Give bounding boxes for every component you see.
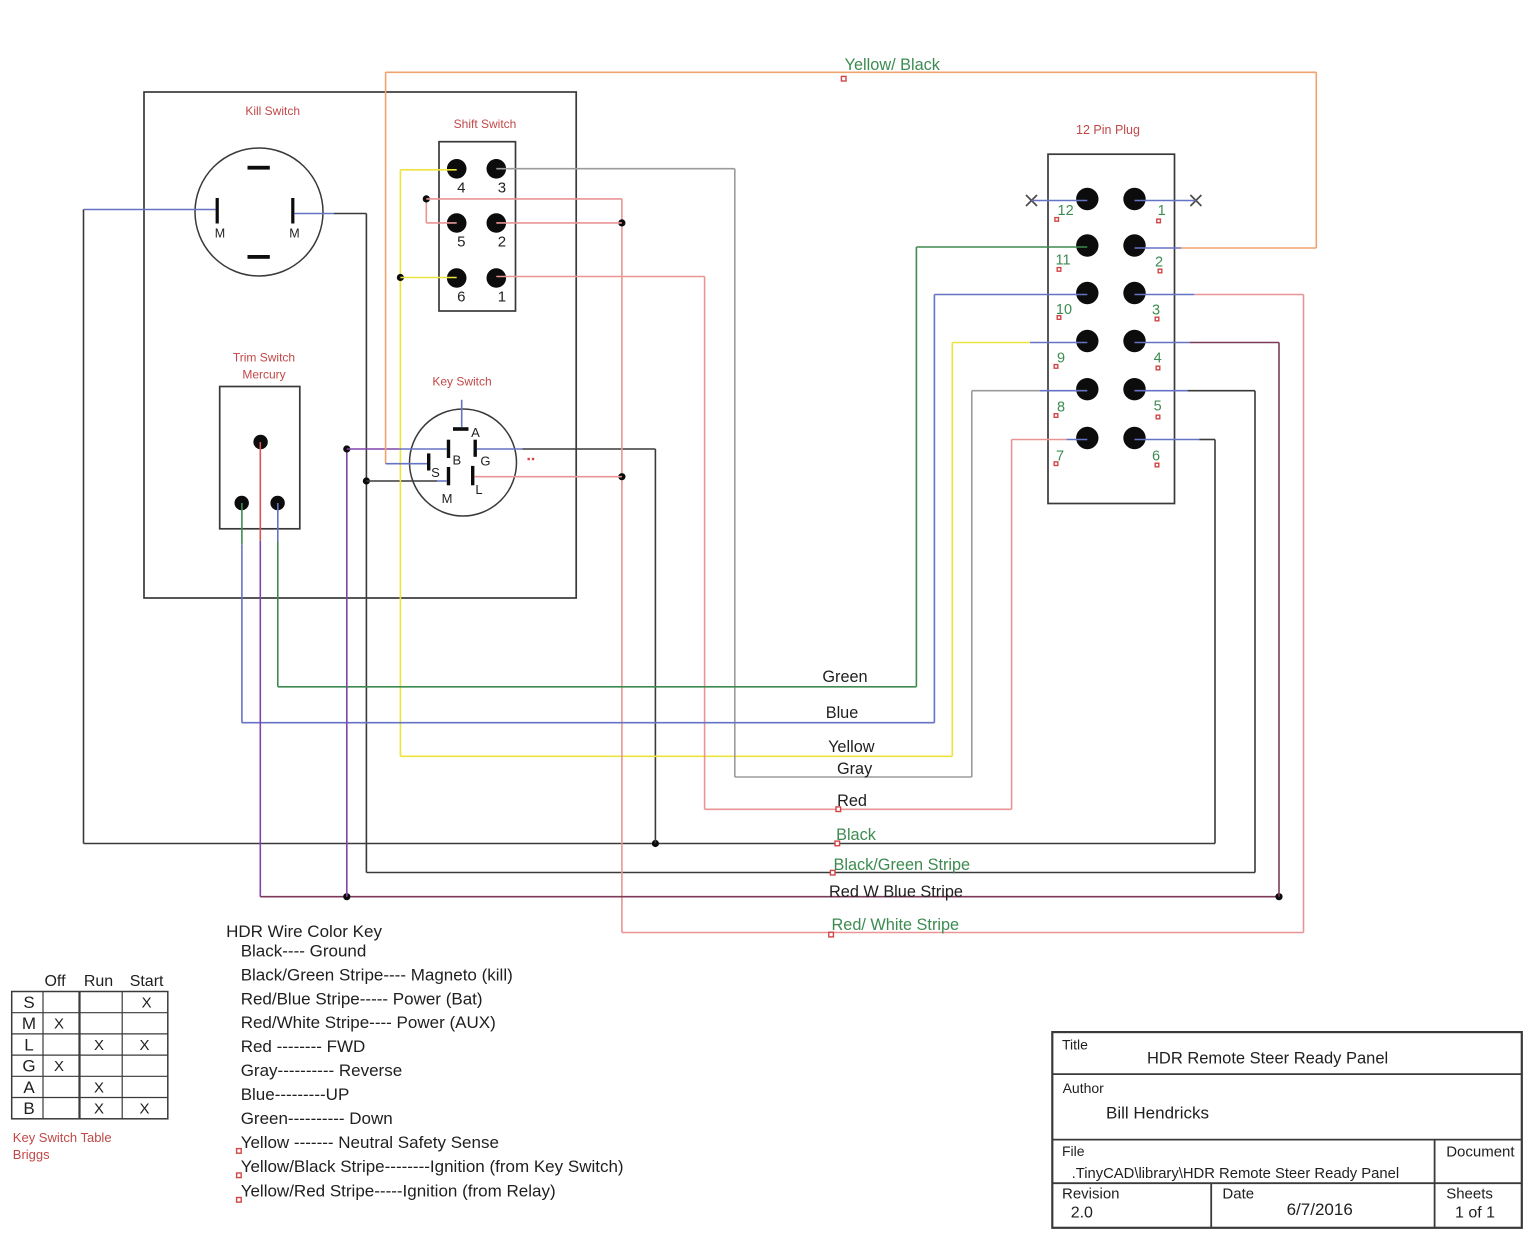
color key origin square Yellow	[237, 1149, 242, 1154]
wire red plug pin 3 link	[1194, 294, 1303, 296]
key switch terminal bar M	[447, 467, 450, 485]
svg-text:Black/Green Stripe: Black/Green Stripe	[833, 856, 970, 874]
wire blue kill switch left M lead	[84, 209, 216, 211]
svg-text:Kill Switch: Kill Switch	[245, 104, 300, 118]
svg-text:Off: Off	[44, 973, 66, 990]
wire blue plug pin 3 stub	[1135, 294, 1195, 296]
svg-text:5: 5	[457, 234, 465, 251]
Black label origin square	[835, 841, 840, 846]
shift switch pin 2	[487, 213, 507, 233]
svg-text:Sheets: Sheets	[1446, 1185, 1493, 1202]
kill switch right terminal bar M	[291, 198, 294, 224]
svg-text:G: G	[480, 454, 490, 469]
plug pin 7 label origin square	[1054, 462, 1058, 466]
plug pin 3 label origin square	[1155, 317, 1159, 321]
wire gray riser down	[734, 169, 736, 777]
plug pin 11	[1076, 234, 1098, 256]
kill switch top contact bar	[248, 166, 270, 170]
svg-text:X: X	[94, 1101, 104, 1118]
wire red upper horizontal	[426, 198, 622, 200]
svg-text:Yellow/Black Stripe--------Ign: Yellow/Black Stripe--------Ignition (fro…	[241, 1157, 624, 1176]
svg-text:Red/ White Stripe: Red/ White Stripe	[832, 916, 960, 934]
wire black kill/key-M riser	[365, 214, 367, 873]
svg-text:1 of 1: 1 of 1	[1455, 1204, 1495, 1221]
svg-text:X: X	[139, 1037, 149, 1054]
wire black Black/Green bus horizontal	[366, 872, 1255, 874]
svg-text:1: 1	[1158, 203, 1166, 219]
kill switch bottom contact bar	[248, 255, 270, 259]
title block row line 2	[1052, 1139, 1522, 1141]
wire blue plug pin 1 stub	[1135, 200, 1196, 202]
plug pin 5 label origin square	[1156, 415, 1160, 419]
wire maroon plug pin 4 link	[1189, 342, 1279, 344]
wire orange right riser	[1315, 72, 1317, 248]
svg-text:.TinyCAD\library\HDR Remote St: .TinyCAD\library\HDR Remote Steer Ready …	[1072, 1166, 1400, 1182]
svg-text:2: 2	[498, 234, 506, 251]
plug pin 9 label origin square	[1054, 365, 1058, 369]
wire red riser to plug pin 3	[1303, 295, 1305, 933]
wire orange plug pin 2 link	[1181, 247, 1316, 249]
wire red key L lead	[474, 476, 622, 478]
kill switch left terminal bar M	[216, 198, 219, 224]
wire blue trim right pin lead down	[277, 503, 279, 542]
wire green trim riser down	[277, 542, 279, 687]
plug pin 1	[1123, 188, 1145, 210]
svg-text:Yellow/ Black: Yellow/ Black	[845, 56, 941, 74]
svg-text:3: 3	[1152, 302, 1160, 318]
wire yellow shift pin 6 lead	[400, 277, 456, 279]
svg-text:X: X	[142, 995, 152, 1012]
svg-text:Green---------- Down: Green---------- Down	[241, 1109, 393, 1128]
kill switch body circle	[195, 148, 323, 276]
wire blue plug pin 5 stub	[1135, 390, 1188, 392]
svg-text:Red/White Stripe---- Power (AU: Red/White Stripe---- Power (AUX)	[241, 1013, 496, 1032]
wire blue plug pin 4 stub	[1135, 342, 1190, 344]
svg-text:Gray---------- Reverse: Gray---------- Reverse	[241, 1061, 402, 1080]
key switch terminal bar L	[471, 466, 474, 485]
svg-text:HDR Remote Steer Ready Panel: HDR Remote Steer Ready Panel	[1147, 1050, 1388, 1068]
plug pin 12 label origin square	[1055, 218, 1059, 222]
wire red Red bus horizontal	[705, 808, 1012, 810]
svg-text:X: X	[139, 1101, 149, 1118]
svg-text:Yellow ------- Neutral Safety: Yellow ------- Neutral Safety Sense	[241, 1133, 499, 1152]
svg-text:Black/Green Stripe---- Magneto: Black/Green Stripe---- Magneto (kill)	[241, 966, 513, 985]
Red/White label origin square	[829, 932, 834, 937]
wire blue plug pin 9 stub	[1030, 342, 1087, 344]
wire yellow bus horizontal	[400, 755, 952, 757]
trim switch top pin	[253, 435, 267, 449]
trim switch bottom-left pin	[235, 496, 249, 510]
wire purple key B riser	[346, 449, 348, 897]
svg-text:Red: Red	[837, 792, 867, 810]
svg-text:File: File	[1062, 1143, 1085, 1159]
wire yellow shift pin 4 lead	[400, 169, 456, 171]
wire blue key B stub	[399, 448, 447, 450]
wire blue plug pin 6 stub	[1135, 439, 1200, 441]
svg-text:Date: Date	[1222, 1185, 1254, 1202]
wire green plug pin 11 lead	[916, 246, 1087, 248]
wire blue key switch G lead	[477, 448, 523, 450]
svg-text:2: 2	[1155, 254, 1163, 270]
svg-text:6/7/2016: 6/7/2016	[1287, 1200, 1353, 1219]
wire black key M horizontal	[366, 480, 437, 482]
plug pin 9	[1076, 330, 1098, 352]
key switch terminal bar B	[447, 440, 450, 458]
title block frame	[1052, 1032, 1522, 1228]
wire red Red/White bus horizontal	[622, 932, 1304, 934]
svg-text:1: 1	[498, 289, 506, 306]
svg-text:M: M	[215, 227, 225, 241]
svg-text:12: 12	[1058, 203, 1074, 219]
svg-text:G: G	[22, 1057, 35, 1076]
svg-text:M: M	[289, 227, 299, 241]
wire green Green bus horizontal	[278, 686, 917, 688]
key switch terminal bar S	[427, 453, 430, 470]
color key origin square Yellow/Red	[237, 1198, 242, 1203]
svg-text:11: 11	[1055, 253, 1070, 269]
wire blue plug pin 7 stub	[1066, 439, 1087, 441]
svg-text:Briggs: Briggs	[13, 1147, 50, 1162]
svg-text:3: 3	[498, 180, 506, 197]
wire gray riser to plug pin 8	[971, 391, 973, 777]
plug pin 3	[1123, 282, 1145, 304]
plug pin 7	[1076, 427, 1098, 449]
junction on Black bus at key G riser	[652, 840, 659, 847]
plug pin 10	[1076, 282, 1098, 304]
svg-text:B: B	[23, 1099, 34, 1118]
shift switch pin 6	[447, 268, 467, 288]
wire blue key S stub	[386, 463, 427, 465]
wire blue plug pin 2 stub	[1135, 247, 1182, 249]
svg-text:Run: Run	[84, 973, 113, 990]
title block row line 1	[1052, 1073, 1522, 1075]
svg-text:4: 4	[457, 180, 465, 197]
plug pin 6	[1123, 427, 1145, 449]
wire gray bus horizontal	[735, 776, 972, 778]
wire orange left riser to key S	[385, 72, 387, 463]
plug pin 2 label origin square	[1158, 269, 1162, 273]
svg-text:Shift Switch: Shift Switch	[454, 117, 517, 131]
plug pin 2	[1123, 234, 1145, 256]
wire red shift pin 2 lead	[496, 222, 622, 224]
wire red trim top pin lead down	[259, 442, 261, 541]
wire maroon riser to plug pin 4	[1278, 343, 1280, 897]
svg-text:X: X	[54, 1058, 64, 1075]
plug pin 1 label origin square	[1157, 219, 1161, 223]
svg-text:Blue: Blue	[826, 704, 859, 722]
svg-text:S: S	[431, 465, 440, 480]
junction dot at key B corner	[343, 445, 350, 452]
plug pin 5	[1123, 378, 1145, 400]
svg-text:2.0: 2.0	[1071, 1204, 1093, 1221]
svg-text:6: 6	[457, 289, 465, 306]
kill switch enclosure box	[144, 92, 576, 598]
svg-text:Document: Document	[1446, 1143, 1515, 1160]
wire red plug pin 7 link	[1012, 439, 1067, 441]
Yellow/Black label origin square	[841, 76, 846, 81]
svg-text:Red W Blue Stripe: Red W Blue Stripe	[829, 883, 963, 901]
svg-text:6: 6	[1152, 449, 1160, 465]
svg-text:Trim Switch: Trim Switch	[233, 351, 295, 365]
svg-text:Red/Blue Stripe----- Power (Ba: Red/Blue Stripe----- Power (Bat)	[241, 989, 483, 1008]
wire black key G riser down	[654, 449, 656, 844]
wire red riser to plug pin 7	[1011, 440, 1013, 810]
wire red shift pin 1 lead	[496, 276, 704, 278]
wire blue kill switch right M lead	[294, 213, 334, 215]
svg-text:Revision: Revision	[1062, 1185, 1120, 1202]
svg-text:Author: Author	[1063, 1080, 1105, 1096]
wire maroon RedWBlue bus horizontal	[260, 896, 1279, 898]
svg-text:5: 5	[1154, 399, 1162, 415]
wire blue plug pin 10 lead	[934, 294, 1087, 296]
wire green riser to plug pin 11	[915, 247, 917, 687]
shift switch box	[439, 142, 516, 311]
junction at key M tap	[363, 477, 370, 484]
svg-text:Mercury: Mercury	[242, 368, 285, 382]
key switch terminal bar G	[474, 440, 477, 457]
shift switch pin 3	[487, 159, 507, 179]
svg-text:L: L	[24, 1035, 33, 1054]
plug pin 4 label origin square	[1156, 366, 1160, 370]
svg-text:L: L	[475, 482, 482, 497]
junction at shift pin 6 tap	[397, 274, 404, 281]
no-connect X at plug pin 1	[1190, 195, 1201, 206]
svg-text:4: 4	[1154, 351, 1162, 367]
svg-text:Black---- Ground: Black---- Ground	[241, 942, 367, 961]
svg-text:B: B	[452, 453, 461, 468]
plug pin 6 label origin square	[1155, 463, 1159, 467]
wire blue key M stub	[437, 480, 447, 482]
svg-text:Blue---------UP: Blue---------UP	[241, 1085, 350, 1104]
stray red marks near key switch	[528, 458, 530, 460]
12 pin plug box	[1048, 154, 1175, 503]
wire black riser to plug pin 5	[1254, 391, 1256, 873]
key switch body circle	[410, 409, 517, 516]
wire red shift pin 5 up link	[425, 199, 427, 223]
svg-text:Bill Hendricks: Bill Hendricks	[1106, 1103, 1209, 1122]
shift switch pin 1	[487, 268, 507, 288]
shift switch pin 5	[447, 213, 467, 233]
plug pin 4	[1123, 330, 1145, 352]
Red label origin square	[836, 807, 841, 812]
wire gray shift pin 3 lead	[496, 168, 735, 170]
wire blue plug pin 8 stub	[1040, 390, 1087, 392]
wire blue trim riser down	[241, 544, 243, 723]
svg-text:Yellow: Yellow	[828, 738, 875, 756]
wire purple trim riser down	[259, 541, 261, 897]
svg-text:Green: Green	[822, 668, 867, 686]
svg-text:X: X	[94, 1079, 104, 1096]
junction dot at red corner	[423, 195, 430, 202]
wire purple key B horizontal	[347, 448, 399, 450]
svg-text:Red -------- FWD: Red -------- FWD	[241, 1037, 366, 1056]
svg-text:A: A	[471, 425, 480, 440]
wire blue stub to key A	[461, 400, 463, 427]
plug pin 8 label origin square	[1054, 414, 1058, 418]
svg-text:12 Pin Plug: 12 Pin Plug	[1076, 123, 1140, 137]
title block row line 3	[1052, 1182, 1522, 1184]
plug pin 10 label origin square	[1057, 316, 1061, 320]
plug pin 8	[1076, 378, 1098, 400]
junction dot at maroon corner	[1275, 893, 1282, 900]
wire red shift pin 5 lead	[426, 222, 456, 224]
wire black kill right to corner	[334, 213, 366, 215]
Black/Green label origin square	[830, 870, 835, 875]
wire yellow left riser	[399, 170, 401, 757]
wire red FWD riser down	[704, 277, 706, 810]
no-connect X at plug pin 12	[1026, 195, 1037, 206]
svg-text:M: M	[442, 491, 453, 506]
wire yellow plug pin 9 link	[952, 342, 1030, 344]
wire black riser to plug pin 6	[1214, 440, 1216, 844]
svg-text:Key Switch: Key Switch	[432, 375, 491, 389]
trim switch box	[220, 387, 300, 529]
svg-text:HDR Wire Color Key: HDR Wire Color Key	[226, 922, 382, 941]
junction at key B riser	[343, 893, 350, 900]
plug pin 11 label origin square	[1057, 268, 1061, 272]
svg-text:Black: Black	[836, 826, 877, 844]
key switch terminal bar A	[453, 427, 469, 431]
wire orange top horizontal	[386, 71, 1317, 73]
wire red main riser down	[621, 199, 623, 933]
svg-text:Start: Start	[130, 973, 164, 990]
wire black left riser	[83, 210, 85, 844]
svg-text:X: X	[94, 1037, 104, 1054]
svg-text:Yellow/Red Stripe-----Ignition: Yellow/Red Stripe-----Ignition (from Rel…	[241, 1182, 556, 1201]
svg-text:Title: Title	[1062, 1037, 1088, 1053]
wire black plug pin 5 link	[1188, 390, 1255, 392]
wire blue Blue bus horizontal	[242, 722, 935, 724]
wire blue riser to plug pin 10	[933, 295, 935, 723]
svg-text:S: S	[23, 993, 34, 1012]
plug pin 12	[1076, 188, 1098, 210]
title block date divider	[1210, 1183, 1212, 1228]
wire black plug pin 6 link	[1199, 439, 1215, 441]
svg-text:M: M	[22, 1014, 36, 1033]
trim switch bottom-right pin	[270, 496, 284, 510]
wire gray plug pin 8 link	[972, 390, 1040, 392]
junction at shift pin 2 tap	[618, 219, 625, 226]
wire black Black bus horizontal	[84, 843, 1216, 845]
title block document divider	[1434, 1140, 1436, 1228]
svg-text:Gray: Gray	[837, 760, 873, 778]
wire yellow riser to plug pin 9	[951, 343, 953, 757]
wire green trim left pin lead down	[241, 503, 243, 544]
svg-text:Key Switch Table: Key Switch Table	[13, 1130, 112, 1145]
color key origin square Yellow/Black	[237, 1173, 242, 1178]
svg-text:A: A	[23, 1078, 35, 1097]
key switch table grid	[12, 992, 168, 1119]
wire black key G horizontal	[523, 448, 656, 450]
svg-text:X: X	[54, 1016, 64, 1033]
wire blue plug pin 12 stub	[1032, 200, 1088, 202]
shift switch pin 4	[447, 159, 467, 179]
junction at key L tap	[618, 473, 625, 480]
